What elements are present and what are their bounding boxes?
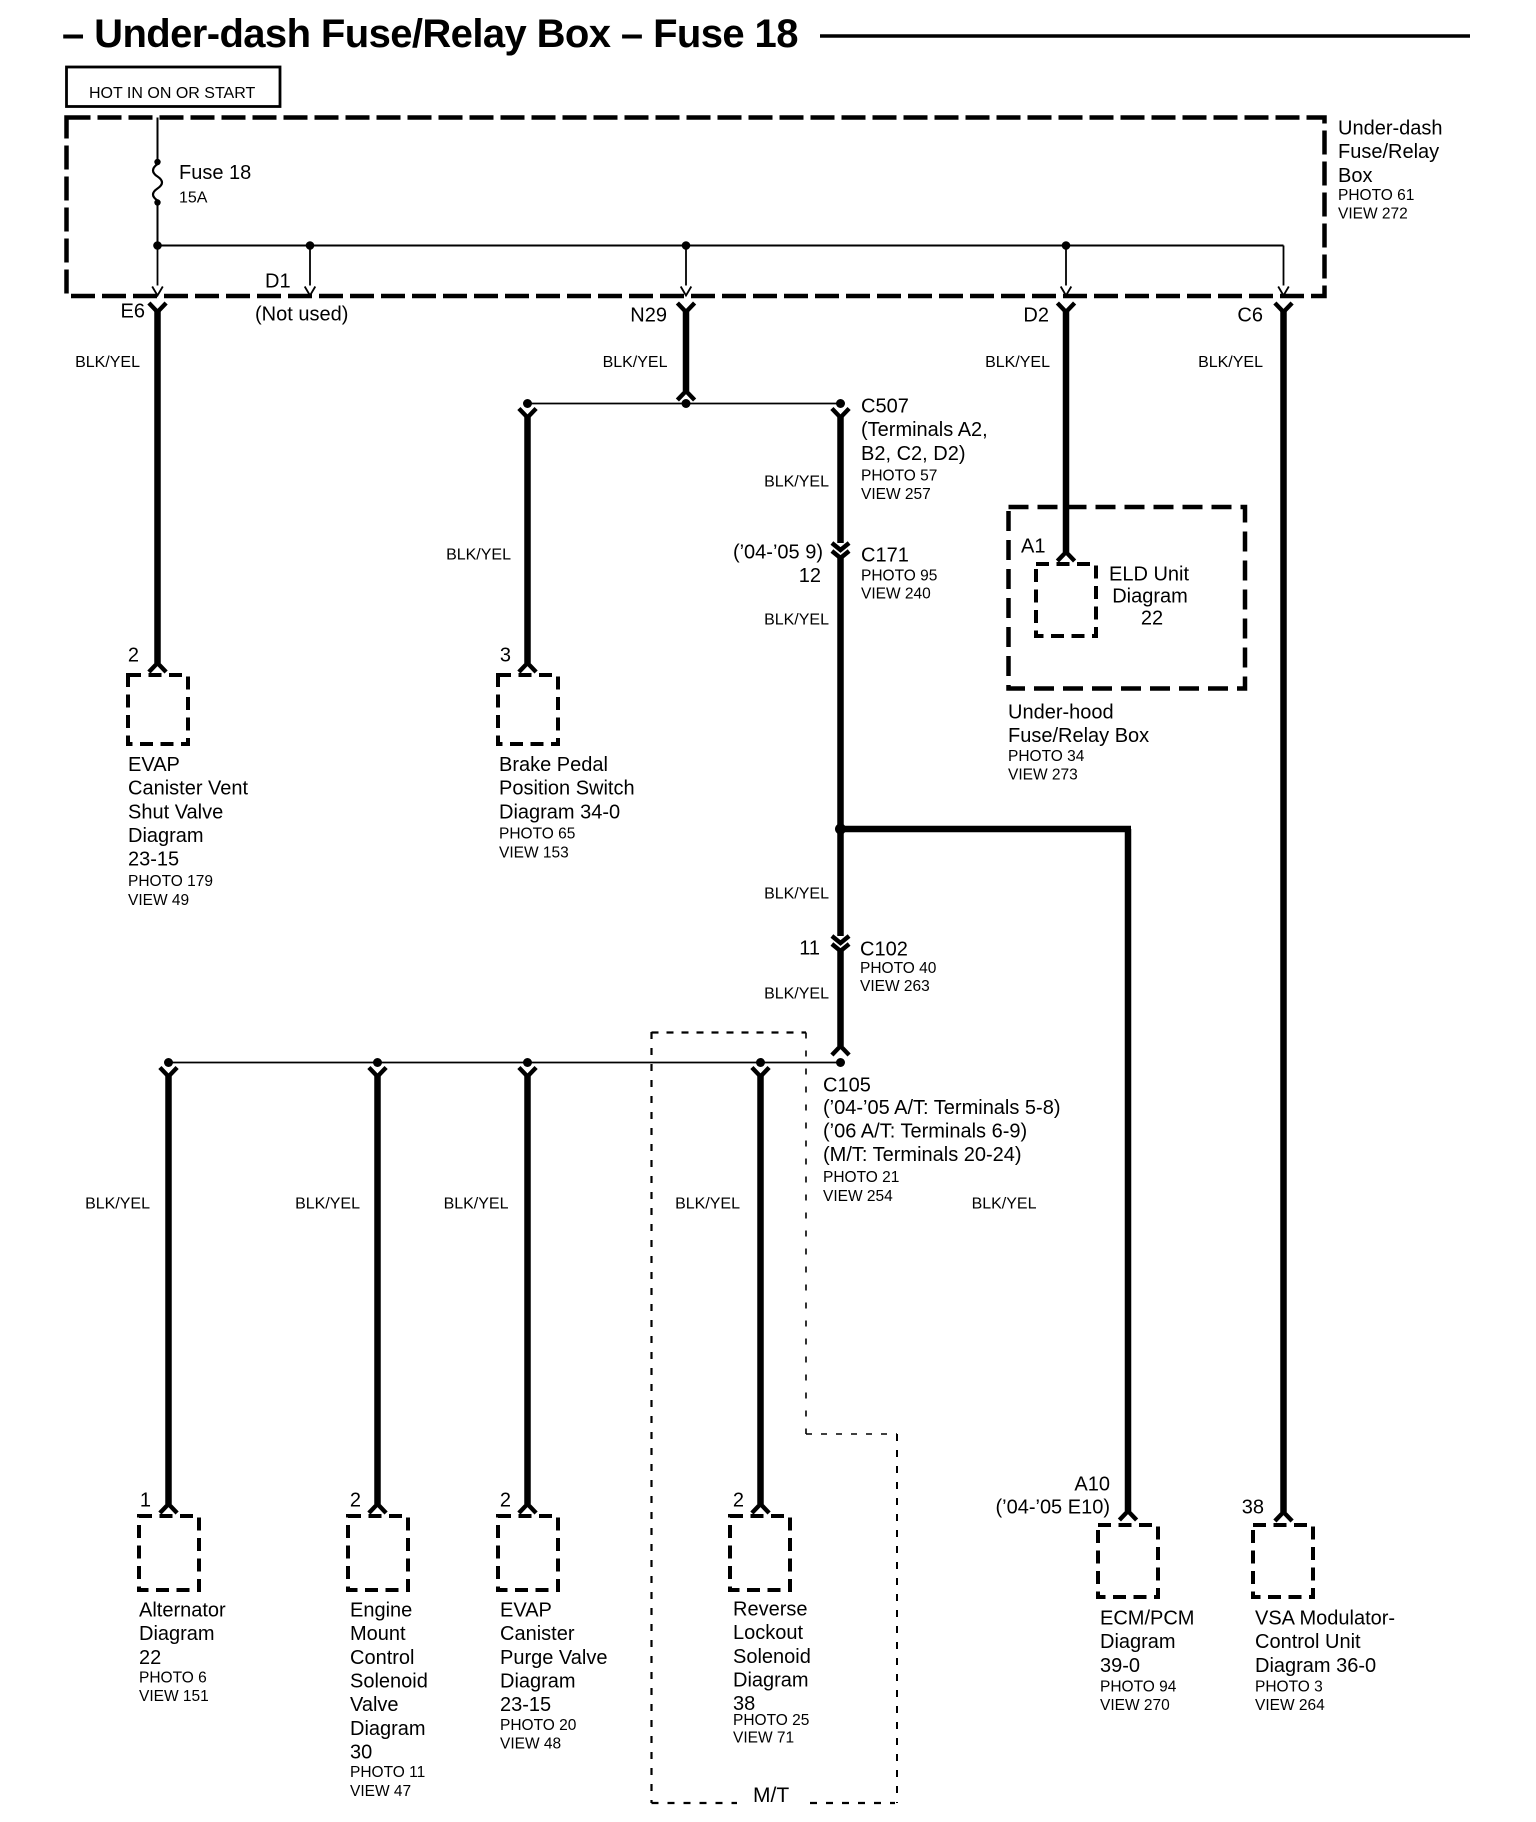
terminal brake branch bbox=[519, 409, 536, 418]
node engine mount branch bbox=[373, 1058, 382, 1067]
svg-text:Canister Vent: Canister Vent bbox=[128, 778, 249, 800]
svg-text:PHOTO 21: PHOTO 21 bbox=[823, 1169, 899, 1186]
svg-text:23-15: 23-15 bbox=[128, 849, 179, 871]
under-dash fuse/relay box (dashed) bbox=[67, 118, 1325, 297]
component reverse lockout solenoid bbox=[730, 1516, 790, 1590]
svg-text:BLK/YEL: BLK/YEL bbox=[764, 474, 829, 491]
svg-text:Shut Valve: Shut Valve bbox=[128, 801, 223, 823]
svg-text:BLK/YEL: BLK/YEL bbox=[85, 1195, 150, 1212]
svg-text:ECM/PCM: ECM/PCM bbox=[1100, 1607, 1194, 1629]
svg-text:12: 12 bbox=[799, 565, 821, 587]
terminal C507 bbox=[832, 409, 849, 418]
component EVAP canister purge valve bbox=[498, 1516, 558, 1590]
svg-text:1: 1 bbox=[140, 1489, 151, 1511]
svg-text:(’04-’05 A/T: Terminals 5-8): (’04-’05 A/T: Terminals 5-8) bbox=[823, 1097, 1061, 1119]
svg-text:BLK/YEL: BLK/YEL bbox=[444, 1195, 509, 1212]
wire EVAP purge BLK/YEL bbox=[524, 1074, 531, 1504]
svg-text:VIEW 49: VIEW 49 bbox=[128, 892, 189, 909]
svg-text:11: 11 bbox=[799, 937, 820, 959]
wire drop N29 bbox=[685, 246, 687, 286]
terminal A1 ELD bbox=[1057, 552, 1074, 561]
svg-text:Diagram: Diagram bbox=[733, 1670, 809, 1692]
svg-text:HOT IN ON OR START: HOT IN ON OR START bbox=[89, 85, 255, 102]
svg-text:PHOTO 40: PHOTO 40 bbox=[860, 960, 937, 977]
arrow D2 bbox=[1061, 287, 1072, 296]
wire drop E6 bbox=[157, 246, 159, 286]
svg-text:(M/T: Terminals 20-24): (M/T: Terminals 20-24) bbox=[823, 1144, 1022, 1166]
component ELD unit bbox=[1036, 564, 1096, 636]
node N29 junction bbox=[682, 399, 691, 408]
node brake branch bbox=[523, 399, 532, 408]
svg-text:38: 38 bbox=[1242, 1496, 1264, 1518]
svg-text:PHOTO 94: PHOTO 94 bbox=[1100, 1679, 1177, 1696]
svg-text:VIEW 151: VIEW 151 bbox=[139, 1688, 209, 1705]
svg-text:VIEW 273: VIEW 273 bbox=[1008, 767, 1078, 784]
node bus D2 bbox=[1062, 241, 1071, 250]
svg-text:BLK/YEL: BLK/YEL bbox=[603, 354, 668, 371]
svg-text:VSA Modulator-: VSA Modulator- bbox=[1255, 1607, 1395, 1629]
svg-text:(’06 A/T: Terminals 6-9): (’06 A/T: Terminals 6-9) bbox=[823, 1120, 1027, 1142]
M/T region (dashed) bbox=[650, 1032, 652, 1803]
svg-text:PHOTO 34: PHOTO 34 bbox=[1008, 748, 1085, 765]
svg-text:Fuse/Relay: Fuse/Relay bbox=[1338, 141, 1439, 163]
wire C507 to C171 bbox=[837, 415, 844, 543]
arrow D1 bbox=[305, 287, 316, 296]
terminal pin 3 brake switch bbox=[519, 663, 536, 672]
svg-text:(Not used): (Not used) bbox=[255, 304, 348, 326]
svg-text:(’04-’05 E10): (’04-’05 E10) bbox=[995, 1496, 1110, 1518]
svg-text:BLK/YEL: BLK/YEL bbox=[295, 1195, 360, 1212]
svg-text:Diagram: Diagram bbox=[1100, 1631, 1176, 1653]
terminal alternator bbox=[160, 1504, 177, 1513]
svg-text:Valve: Valve bbox=[350, 1694, 399, 1716]
terminal reverse lockout bbox=[752, 1504, 769, 1513]
svg-text:BLK/YEL: BLK/YEL bbox=[1198, 354, 1263, 371]
svg-text:Diagram: Diagram bbox=[350, 1718, 426, 1740]
svg-text:EVAP: EVAP bbox=[500, 1599, 552, 1621]
svg-text:PHOTO 20: PHOTO 20 bbox=[500, 1717, 577, 1734]
svg-text:PHOTO 57: PHOTO 57 bbox=[861, 468, 937, 485]
svg-text:23-15: 23-15 bbox=[500, 1694, 551, 1716]
node C105 bbox=[836, 1058, 845, 1067]
svg-text:N29: N29 bbox=[630, 305, 667, 327]
svg-text:VIEW 254: VIEW 254 bbox=[823, 1188, 893, 1205]
svg-text:PHOTO 11: PHOTO 11 bbox=[350, 1764, 425, 1781]
terminal pin 2 EVAP vent valve bbox=[149, 663, 166, 672]
terminal engine mount bbox=[369, 1504, 386, 1513]
svg-text:Lockout: Lockout bbox=[733, 1622, 803, 1644]
svg-text:Fuse/Relay Box: Fuse/Relay Box bbox=[1008, 725, 1149, 747]
component VSA modulator-control unit bbox=[1253, 1525, 1313, 1597]
svg-text:BLK/YEL: BLK/YEL bbox=[675, 1195, 740, 1212]
terminal D2 bbox=[1057, 303, 1074, 312]
svg-text:2: 2 bbox=[500, 1489, 511, 1511]
svg-text:BLK/YEL: BLK/YEL bbox=[75, 354, 140, 371]
svg-text:Diagram: Diagram bbox=[1112, 585, 1188, 607]
svg-text:BLK/YEL: BLK/YEL bbox=[446, 547, 511, 564]
svg-text:15A: 15A bbox=[179, 190, 208, 207]
svg-text:B2, C2, D2): B2, C2, D2) bbox=[861, 443, 965, 465]
component brake pedal position switch bbox=[498, 675, 558, 744]
svg-text:Engine: Engine bbox=[350, 1599, 412, 1621]
svg-text:Canister: Canister bbox=[500, 1623, 575, 1645]
node bus E6 bbox=[153, 241, 162, 250]
wire brake BLK/YEL bbox=[524, 415, 531, 663]
svg-text:BLK/YEL: BLK/YEL bbox=[972, 1195, 1037, 1212]
wire C105 bus bbox=[169, 1062, 841, 1064]
terminal EVAP purge bbox=[519, 1504, 536, 1513]
svg-text:Under-hood: Under-hood bbox=[1008, 701, 1114, 723]
node reverse lockout branch bbox=[756, 1058, 765, 1067]
component EVAP canister vent shut valve bbox=[128, 675, 188, 744]
svg-text:(Terminals A2,: (Terminals A2, bbox=[861, 419, 988, 441]
wire C6 BLK/YEL bbox=[1280, 310, 1287, 1512]
svg-text:2: 2 bbox=[733, 1489, 744, 1511]
svg-text:M/T: M/T bbox=[753, 1784, 789, 1807]
wire fuse to bus bbox=[157, 204, 159, 246]
svg-text:BLK/YEL: BLK/YEL bbox=[764, 885, 829, 902]
wire drop D2 bbox=[1065, 246, 1067, 286]
wire bus bbox=[158, 245, 1284, 247]
wire junction to C102 bbox=[837, 829, 844, 936]
terminal 38 VSA bbox=[1275, 1512, 1292, 1521]
wire N29 BLK/YEL bbox=[683, 310, 690, 391]
svg-text:C105: C105 bbox=[823, 1074, 871, 1096]
node fuse bottom bbox=[154, 199, 160, 205]
svg-text:Solenoid: Solenoid bbox=[350, 1671, 428, 1693]
wire D2 BLK/YEL to ELD bbox=[1063, 310, 1070, 552]
svg-text:PHOTO 95: PHOTO 95 bbox=[861, 568, 937, 585]
svg-text:Mount: Mount bbox=[350, 1623, 406, 1645]
terminal C6 bbox=[1275, 303, 1292, 312]
svg-text:EVAP: EVAP bbox=[128, 754, 180, 776]
terminal EVAP purge branch bbox=[519, 1068, 536, 1077]
svg-text:Diagram: Diagram bbox=[500, 1671, 576, 1693]
svg-text:ELD Unit: ELD Unit bbox=[1109, 563, 1189, 585]
wire C102 to C105 bbox=[837, 950, 844, 1046]
svg-text:VIEW 264: VIEW 264 bbox=[1255, 1697, 1325, 1714]
component engine mount control solenoid valve bbox=[348, 1516, 408, 1590]
svg-text:PHOTO 3: PHOTO 3 bbox=[1255, 1679, 1323, 1696]
svg-text:BLK/YEL: BLK/YEL bbox=[985, 354, 1050, 371]
svg-text:VIEW 48: VIEW 48 bbox=[500, 1736, 561, 1753]
terminal alternator branch bbox=[160, 1068, 177, 1077]
wire branch to ECM horizontal bbox=[841, 826, 1132, 833]
label HOT IN ON OR START bbox=[67, 67, 281, 107]
svg-text:Reverse: Reverse bbox=[733, 1598, 807, 1620]
arrow C6 bbox=[1278, 287, 1289, 296]
under-hood fuse/relay box (dashed) bbox=[1009, 507, 1246, 689]
wire branch to ECM vertical bbox=[1125, 829, 1132, 1511]
svg-text:PHOTO 25: PHOTO 25 bbox=[733, 1712, 809, 1729]
svg-text:E6: E6 bbox=[121, 301, 145, 323]
svg-text:Diagram 36-0: Diagram 36-0 bbox=[1255, 1655, 1376, 1677]
svg-text:22: 22 bbox=[1141, 607, 1163, 629]
svg-text:22: 22 bbox=[139, 1647, 161, 1669]
svg-text:Position Switch: Position Switch bbox=[499, 778, 635, 800]
svg-text:VIEW 263: VIEW 263 bbox=[860, 978, 930, 995]
svg-text:PHOTO 65: PHOTO 65 bbox=[499, 826, 575, 843]
terminal C105 bbox=[832, 1046, 849, 1055]
wire E6 BLK/YEL bbox=[154, 310, 161, 663]
node C507 branch bbox=[836, 399, 845, 408]
svg-text:– Under-dash Fuse/Relay Box –: – Under-dash Fuse/Relay Box – Fuse 18 bbox=[62, 12, 798, 56]
svg-text:Under-dash: Under-dash bbox=[1338, 117, 1443, 139]
svg-text:VIEW 272: VIEW 272 bbox=[1338, 206, 1408, 223]
svg-text:VIEW 270: VIEW 270 bbox=[1100, 1697, 1170, 1714]
svg-text:Diagram: Diagram bbox=[128, 825, 204, 847]
wire engine mount BLK/YEL bbox=[374, 1074, 381, 1504]
svg-text:VIEW 240: VIEW 240 bbox=[861, 586, 931, 603]
node fuse top bbox=[154, 159, 160, 165]
terminal A10 ECM bbox=[1119, 1511, 1136, 1520]
wire fuse feed bbox=[157, 118, 159, 162]
svg-text:Control Unit: Control Unit bbox=[1255, 1631, 1361, 1653]
svg-text:Diagram 34-0: Diagram 34-0 bbox=[499, 801, 620, 823]
svg-text:Alternator: Alternator bbox=[139, 1599, 226, 1621]
arrow E6 bbox=[152, 287, 163, 296]
wire reverse lockout BLK/YEL bbox=[757, 1074, 764, 1504]
node alternator branch bbox=[164, 1058, 173, 1067]
svg-text:D2: D2 bbox=[1023, 305, 1049, 327]
node bus N29 bbox=[682, 241, 691, 250]
svg-text:VIEW 47: VIEW 47 bbox=[350, 1783, 411, 1800]
svg-text:A10: A10 bbox=[1074, 1473, 1110, 1495]
node bus D1 bbox=[306, 241, 315, 250]
svg-text:A1: A1 bbox=[1021, 535, 1045, 557]
terminal reverse lockout branch bbox=[752, 1068, 769, 1077]
terminal N29 to junction bbox=[677, 391, 694, 400]
terminal engine mount branch bbox=[369, 1068, 386, 1077]
arrow N29 bbox=[681, 287, 692, 296]
wire C171 to junction bbox=[837, 557, 844, 829]
svg-text:PHOTO 6: PHOTO 6 bbox=[139, 1670, 207, 1687]
svg-text:C6: C6 bbox=[1237, 305, 1263, 327]
component alternator bbox=[139, 1516, 199, 1590]
fuse F18 (15A) bbox=[153, 164, 162, 201]
svg-text:3: 3 bbox=[500, 644, 511, 666]
connector C171 bbox=[832, 543, 849, 558]
svg-text:2: 2 bbox=[350, 1489, 361, 1511]
svg-text:Box: Box bbox=[1338, 165, 1372, 187]
wire drop C6 bbox=[1283, 246, 1285, 286]
node EVAP purge branch bbox=[523, 1058, 532, 1067]
svg-text:VIEW 71: VIEW 71 bbox=[733, 1730, 794, 1747]
svg-text:39-0: 39-0 bbox=[1100, 1655, 1140, 1677]
svg-text:Solenoid: Solenoid bbox=[733, 1646, 811, 1668]
svg-text:VIEW 153: VIEW 153 bbox=[499, 845, 569, 862]
svg-text:PHOTO 61: PHOTO 61 bbox=[1338, 187, 1414, 204]
svg-text:C171: C171 bbox=[861, 544, 909, 566]
svg-text:BLK/YEL: BLK/YEL bbox=[764, 986, 829, 1003]
node ECM branch junction bbox=[835, 824, 846, 835]
svg-text:Control: Control bbox=[350, 1647, 414, 1669]
svg-text:Brake Pedal: Brake Pedal bbox=[499, 754, 608, 776]
svg-text:BLK/YEL: BLK/YEL bbox=[764, 612, 829, 629]
svg-text:Diagram: Diagram bbox=[139, 1623, 215, 1645]
svg-text:PHOTO 179: PHOTO 179 bbox=[128, 873, 213, 890]
svg-text:(’04-’05 9): (’04-’05 9) bbox=[733, 541, 823, 563]
wire alternator BLK/YEL bbox=[165, 1074, 172, 1504]
svg-text:2: 2 bbox=[128, 644, 139, 666]
svg-text:Fuse 18: Fuse 18 bbox=[179, 162, 251, 184]
terminal N29 bbox=[677, 303, 694, 312]
connector C102 bbox=[832, 936, 849, 951]
svg-text:30: 30 bbox=[350, 1742, 372, 1764]
svg-text:VIEW 257: VIEW 257 bbox=[861, 486, 931, 503]
svg-text:C507: C507 bbox=[861, 395, 909, 417]
title rule bbox=[820, 34, 1470, 38]
component ECM/PCM bbox=[1098, 1525, 1158, 1597]
svg-text:D1: D1 bbox=[265, 271, 291, 293]
wire junction bus bbox=[528, 403, 841, 405]
svg-text:Purge Valve: Purge Valve bbox=[500, 1647, 607, 1669]
terminal E6 bbox=[149, 303, 166, 312]
svg-text:C102: C102 bbox=[860, 938, 908, 960]
wire drop D1 bbox=[309, 246, 311, 286]
